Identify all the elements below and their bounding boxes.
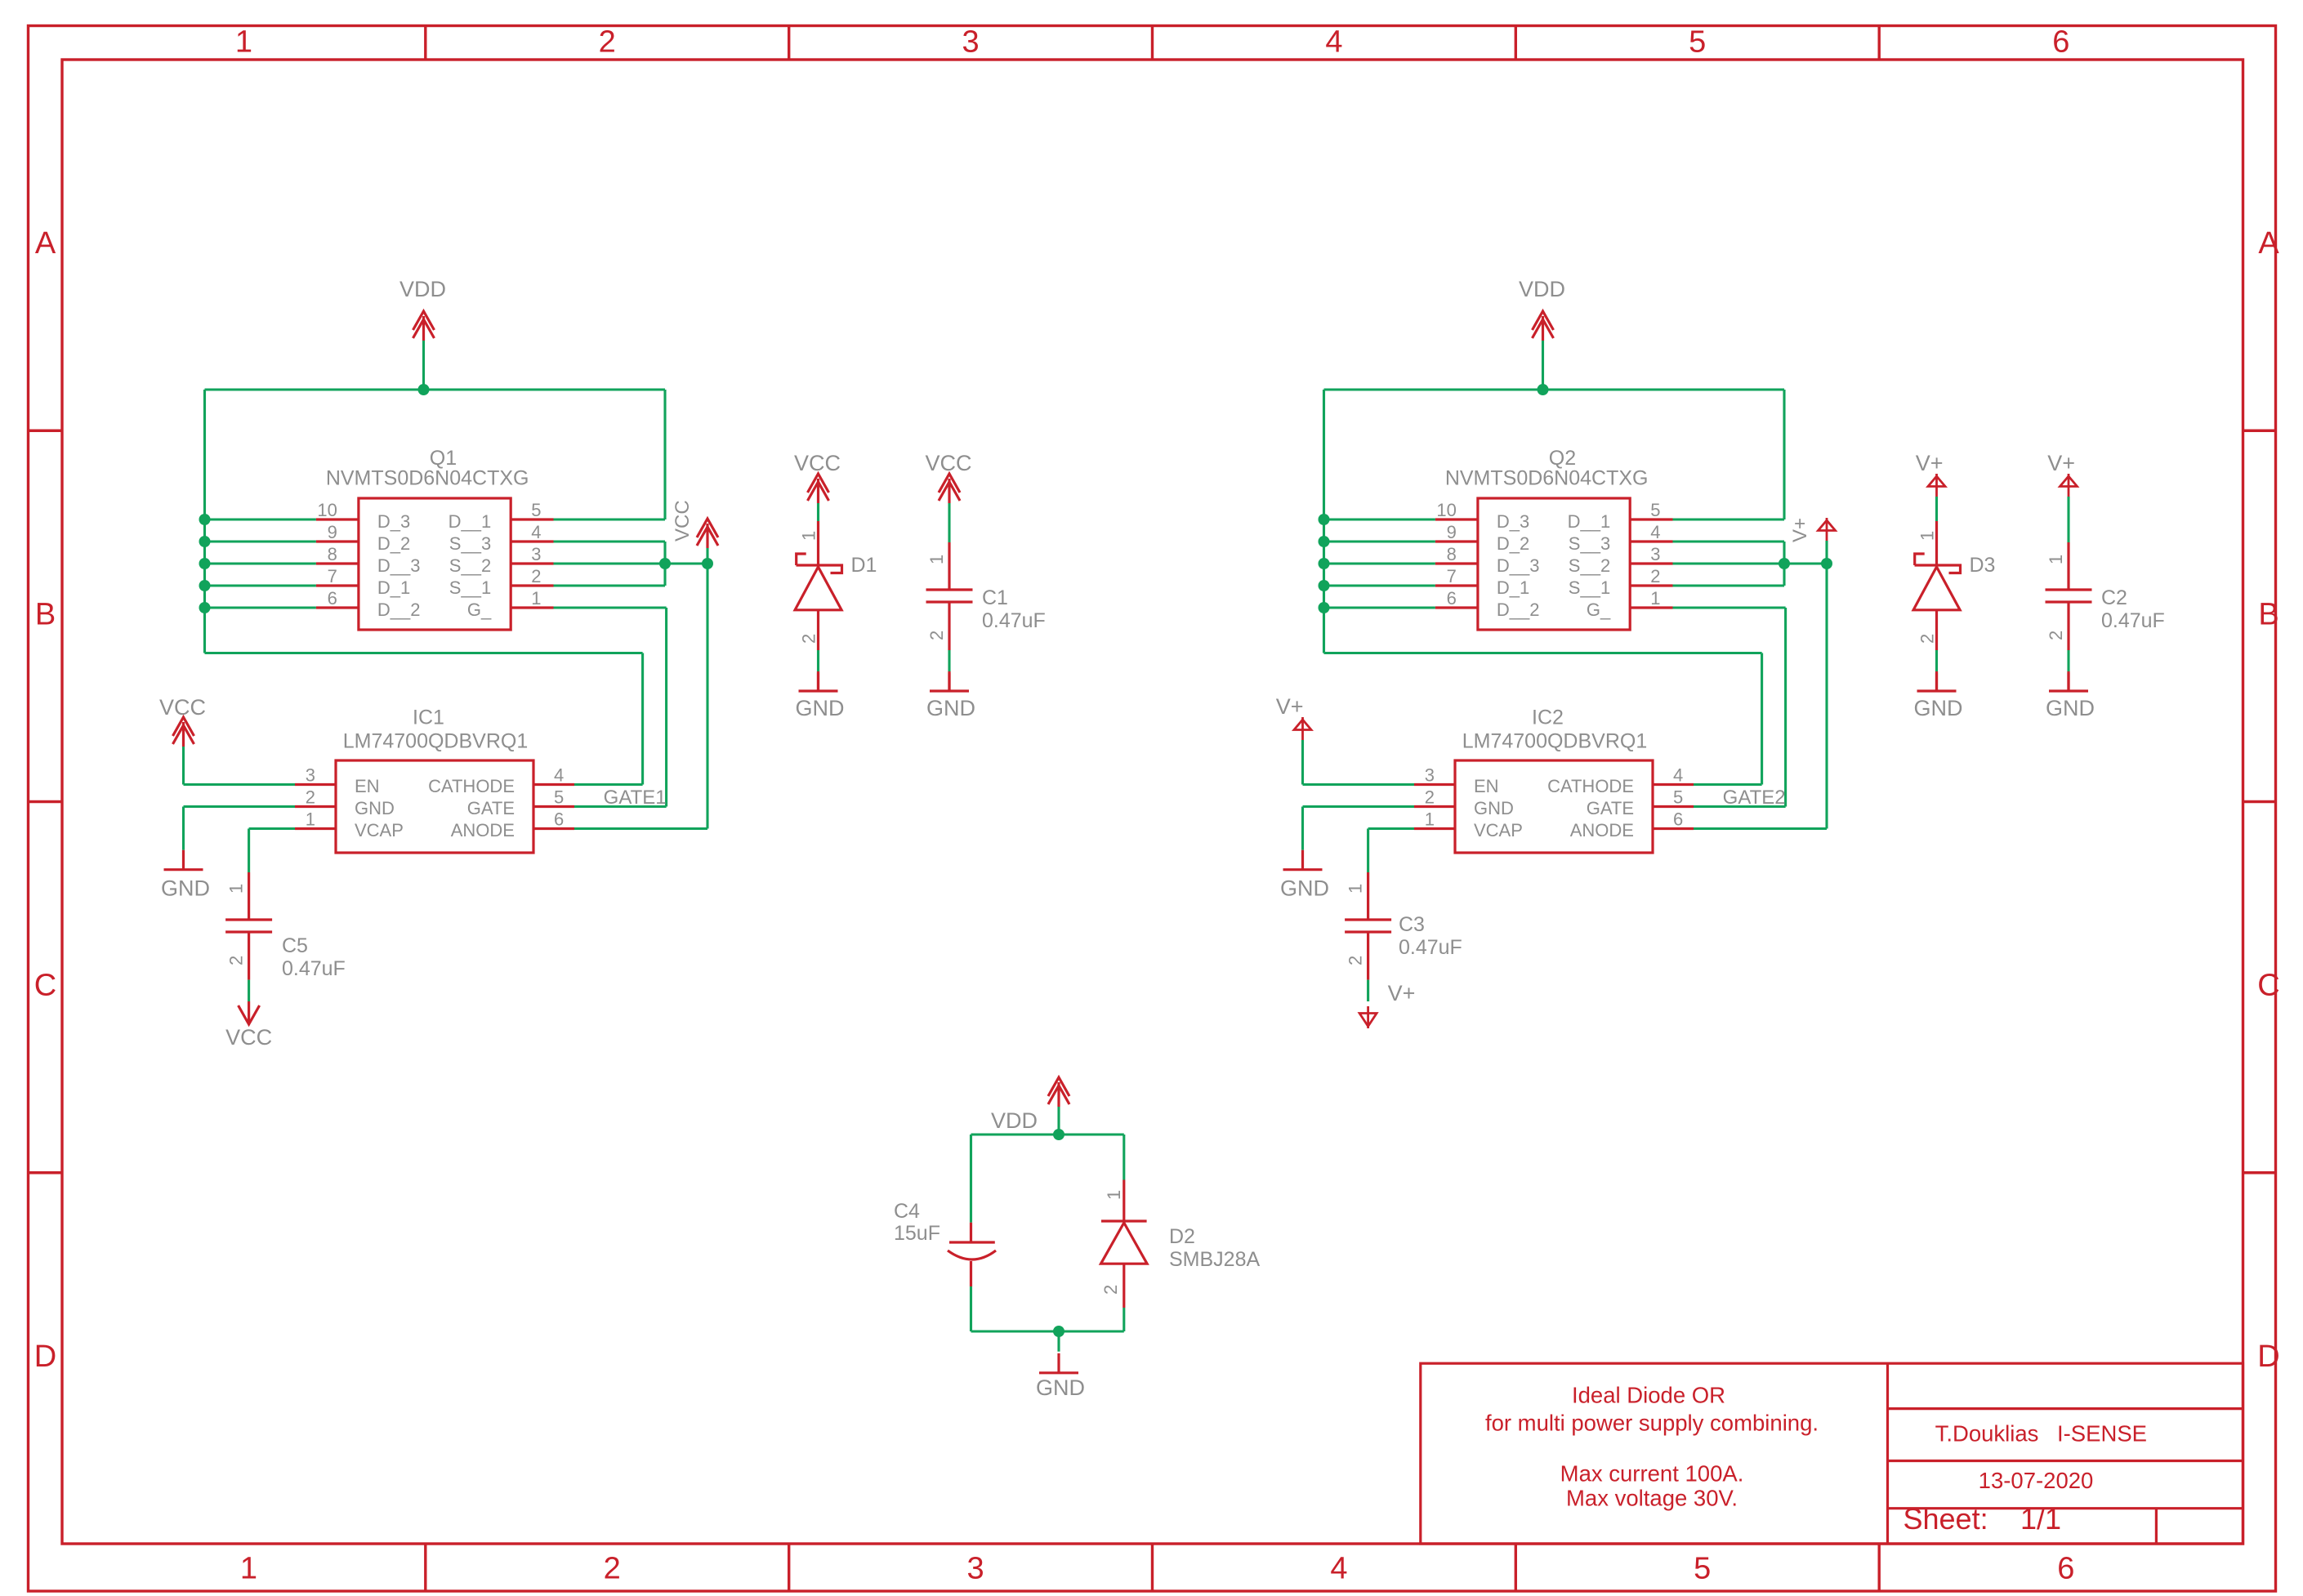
svg-text:D_1: D_1 xyxy=(377,577,410,598)
wire Q2 pin4 xyxy=(1673,540,1785,542)
svg-text:6: 6 xyxy=(1673,809,1683,830)
IC1 pin 2 stub xyxy=(295,805,336,808)
svg-text:1: 1 xyxy=(1104,1190,1124,1200)
wire source tie vertical xyxy=(663,542,666,586)
svg-text:0.47uF: 0.47uF xyxy=(282,957,346,980)
diode D2 pin 1 stub xyxy=(1122,1180,1125,1223)
wire C5 VCAP net xyxy=(249,827,295,830)
svg-text:D_2: D_2 xyxy=(377,533,410,554)
capacitor C2 plates xyxy=(2046,588,2092,591)
frame row ticks left xyxy=(29,430,63,432)
capacitor C1 pin 2 stub xyxy=(948,602,950,650)
IC1 pin 4 stub xyxy=(533,783,574,786)
svg-text:V+: V+ xyxy=(2047,451,2075,475)
op-amp IC1 body (ideal diode controller) xyxy=(336,760,533,853)
svg-text:4: 4 xyxy=(531,522,541,542)
title block divider row1 xyxy=(1888,1407,2243,1410)
diode D3 pin 2 stub xyxy=(1935,610,1938,650)
svg-text:3: 3 xyxy=(1425,765,1435,786)
Q1 pin 9 stub xyxy=(316,540,359,542)
wire Q2 pin3 xyxy=(1673,562,1785,564)
ground symbol below C1 xyxy=(948,671,950,691)
svg-text:4: 4 xyxy=(1330,1552,1347,1586)
svg-text:6: 6 xyxy=(328,588,337,609)
wire bus bottom to IC2 CATHODE xyxy=(1324,652,1762,654)
svg-text:D_1: D_1 xyxy=(1497,577,1529,598)
svg-text:D_3: D_3 xyxy=(1497,511,1529,532)
svg-text:D__1: D__1 xyxy=(1568,511,1611,532)
Q1 pin 7 stub xyxy=(316,584,359,586)
wire bus to Q2 pin 10 xyxy=(1324,518,1435,520)
ground symbol below C2 xyxy=(2067,671,2069,691)
Q2 pin 8 stub xyxy=(1435,562,1478,564)
svg-text:NVMTS0D6N04CTXG: NVMTS0D6N04CTXG xyxy=(1445,467,1649,490)
svg-text:5: 5 xyxy=(531,500,541,520)
ground symbol bottom centre xyxy=(1057,1353,1060,1373)
junction bus pin7 xyxy=(1319,580,1330,591)
diode D1 cathode bar (zener) xyxy=(797,554,842,573)
capacitor C4 pin 2 stub xyxy=(970,1261,972,1286)
diode D3 cathode bar (zener) xyxy=(1915,554,1961,573)
svg-text:1: 1 xyxy=(226,884,247,894)
svg-text:3: 3 xyxy=(306,765,315,786)
svg-text:3: 3 xyxy=(967,1552,984,1586)
svg-text:GND: GND xyxy=(1474,798,1514,818)
ground stub below C1 xyxy=(948,673,950,691)
IC1 pin 6 stub xyxy=(533,827,574,830)
svg-text:2: 2 xyxy=(1100,1285,1121,1295)
svg-text:1: 1 xyxy=(306,809,315,830)
capacitor C4 curved plate (polarized) xyxy=(948,1250,996,1259)
Q2 pin 6 stub xyxy=(1435,606,1478,609)
capacitor C5 pin 2 stub xyxy=(248,932,250,980)
svg-text:NVMTS0D6N04CTXG: NVMTS0D6N04CTXG xyxy=(326,467,529,490)
junction V+ tap xyxy=(1821,558,1832,569)
svg-text:3: 3 xyxy=(1650,544,1660,564)
power VDD arrow above Q1 xyxy=(413,311,435,330)
wire bottom rail C4-D2 xyxy=(971,1330,1124,1332)
svg-text:6: 6 xyxy=(554,809,564,830)
svg-text:5: 5 xyxy=(1673,787,1683,808)
svg-text:3: 3 xyxy=(531,544,541,564)
capacitor C4 pin 1 stub xyxy=(970,1223,972,1242)
wire source to VCC tap xyxy=(665,562,707,564)
svg-text:0.47uF: 0.47uF xyxy=(1399,936,1462,959)
svg-text:V+: V+ xyxy=(1388,981,1416,1005)
ground stub below D3 xyxy=(1935,673,1938,691)
Q1 pin 2 stub xyxy=(511,584,553,586)
wire Q1 pin3 xyxy=(554,562,666,564)
svg-text:D__3: D__3 xyxy=(1497,555,1540,576)
svg-text:S__1: S__1 xyxy=(1569,577,1610,598)
junction VCC tap xyxy=(702,558,713,569)
svg-text:GND: GND xyxy=(1036,1375,1085,1400)
svg-text:2: 2 xyxy=(226,956,247,965)
Q2 pin 7 stub xyxy=(1435,584,1478,586)
Q1 pin 4 stub xyxy=(511,540,553,542)
Q1 pin 5 stub xyxy=(511,518,553,520)
svg-text:S__3: S__3 xyxy=(1569,533,1610,554)
junction source tie xyxy=(1779,558,1790,569)
title block outline xyxy=(1421,1363,2243,1544)
wire VCC down to IC1 ANODE xyxy=(706,564,708,829)
svg-text:CATHODE: CATHODE xyxy=(1547,776,1634,796)
junction bus pin7 xyxy=(199,580,211,591)
svg-text:5: 5 xyxy=(554,787,564,808)
svg-text:A: A xyxy=(35,226,56,261)
svg-text:1: 1 xyxy=(235,25,252,60)
wire bus bottom to IC1 CATHODE xyxy=(205,652,643,654)
op-amp IC2 body (ideal diode controller) xyxy=(1455,760,1653,853)
svg-text:1: 1 xyxy=(1346,884,1366,894)
wire bus to Q1 pin 8 xyxy=(205,562,316,564)
ground symbol at IC2 xyxy=(1301,850,1304,870)
wire bus to Q1 pin 7 xyxy=(205,584,316,586)
title block divider row2 xyxy=(1888,1460,2243,1462)
svg-text:GATE: GATE xyxy=(1587,798,1634,818)
Q1 pin 3 stub xyxy=(511,562,553,564)
wire VCC to D1 xyxy=(817,503,819,521)
svg-text:10: 10 xyxy=(1436,500,1456,520)
transistor Q1 body xyxy=(359,498,511,630)
wire VDD rail xyxy=(205,388,666,390)
svg-text:D__2: D__2 xyxy=(377,600,421,620)
wire IC2 ANODE horizontal xyxy=(1694,827,1827,830)
svg-text:G_: G_ xyxy=(467,600,492,620)
wire Q1 pin5 to VDD rail xyxy=(554,518,666,520)
Q2 pin 10 stub xyxy=(1435,518,1478,520)
svg-text:5: 5 xyxy=(1689,25,1706,60)
wire source tie vertical xyxy=(1783,542,1785,586)
wire left bus vertical xyxy=(203,390,206,653)
capacitor C2 pin 2 stub xyxy=(2067,602,2069,650)
wire bus to Q1 pin 9 xyxy=(205,540,316,542)
ground symbol below D3 xyxy=(1935,671,1938,691)
svg-text:4: 4 xyxy=(554,765,564,786)
svg-text:VCAP: VCAP xyxy=(1474,820,1523,840)
capacitor C2 pin 1 stub xyxy=(2067,542,2069,590)
wire D3 to GND xyxy=(1935,650,1938,673)
svg-text:2: 2 xyxy=(604,1552,621,1586)
wire C2 to GND xyxy=(2067,650,2069,673)
svg-text:EN: EN xyxy=(1474,776,1499,796)
diode D2 cathode bar xyxy=(1101,1219,1147,1222)
power V+ symbol right of Q2 xyxy=(1826,518,1828,541)
power VDD arrow above Q2 xyxy=(1533,311,1554,330)
svg-text:VCC: VCC xyxy=(672,500,694,542)
svg-text:CATHODE: CATHODE xyxy=(428,776,515,796)
diode D2 anode triangle xyxy=(1101,1223,1148,1264)
svg-text:VCC: VCC xyxy=(225,1025,272,1050)
svg-text:C4: C4 xyxy=(894,1200,920,1223)
svg-text:9: 9 xyxy=(1447,522,1457,542)
svg-text:D2: D2 xyxy=(1169,1225,1195,1248)
svg-text:GND: GND xyxy=(926,696,975,720)
wire C1 to GND xyxy=(948,650,950,673)
wire C3 bottom xyxy=(1367,980,1369,1001)
title block small cell divider xyxy=(2155,1509,2158,1544)
svg-text:GND: GND xyxy=(1280,876,1329,901)
svg-text:VCC: VCC xyxy=(794,451,841,475)
wire VDD stem xyxy=(1542,341,1544,390)
svg-text:10: 10 xyxy=(317,500,337,520)
svg-text:1: 1 xyxy=(1917,531,1938,541)
wire Q2 pin2 xyxy=(1673,584,1785,586)
power VCC arrow left of IC1 xyxy=(173,717,194,736)
svg-text:2: 2 xyxy=(531,566,541,586)
diode D3 pin 1 stub xyxy=(1935,521,1938,564)
Q2 pin 4 stub xyxy=(1630,540,1672,542)
junction bus pin10 xyxy=(1319,514,1330,525)
power V+ symbol down below C3 xyxy=(1367,1006,1369,1028)
wire VCC to EN xyxy=(182,747,185,785)
svg-text:0.47uF: 0.47uF xyxy=(2101,609,2165,632)
svg-text:1: 1 xyxy=(799,531,819,541)
svg-text:GATE: GATE xyxy=(467,798,515,818)
capacitor C3 plates xyxy=(1345,918,1391,921)
svg-text:2: 2 xyxy=(1650,566,1660,586)
svg-text:V+: V+ xyxy=(1789,518,1811,542)
ground symbol at IC1 xyxy=(182,850,185,870)
wire left bus vertical xyxy=(1323,390,1325,653)
svg-text:D__3: D__3 xyxy=(377,555,421,576)
wire top rail C4-D2 xyxy=(971,1133,1124,1135)
power VCC arrow right of Q1 xyxy=(697,519,718,537)
svg-text:7: 7 xyxy=(328,566,337,586)
svg-text:GATE2: GATE2 xyxy=(1723,787,1786,809)
wire bus to Q2 pin 8 xyxy=(1324,562,1435,564)
svg-text:GATE1: GATE1 xyxy=(604,787,667,809)
svg-text:1: 1 xyxy=(531,588,541,609)
svg-text:VCAP: VCAP xyxy=(355,820,404,840)
wire V+ stem xyxy=(1825,541,1828,564)
title block divider row3 xyxy=(1888,1507,2243,1509)
capacitor C3 pin 2 stub xyxy=(1367,932,1369,980)
IC1 pin 3 stub xyxy=(295,783,336,786)
junction bus pin9 xyxy=(1319,536,1330,547)
svg-text:2: 2 xyxy=(2046,631,2066,640)
svg-text:Ideal Diode OR: Ideal Diode OR xyxy=(1572,1383,1725,1408)
junction bus pin10 xyxy=(199,514,211,525)
wire C3 VCAP net xyxy=(1368,827,1414,830)
wire C4 bottom xyxy=(970,1286,972,1331)
svg-text:IC1: IC1 xyxy=(413,706,444,729)
svg-text:6: 6 xyxy=(1447,588,1457,609)
frame row ticks right xyxy=(2243,430,2276,432)
svg-text:4: 4 xyxy=(1673,765,1683,786)
svg-text:D__2: D__2 xyxy=(1497,600,1540,620)
svg-text:4: 4 xyxy=(1650,522,1660,542)
svg-text:V+: V+ xyxy=(1276,694,1304,719)
svg-text:GND: GND xyxy=(355,798,395,818)
Q1 pin 10 stub xyxy=(316,518,359,520)
svg-text:C1: C1 xyxy=(982,586,1008,609)
svg-text:2: 2 xyxy=(1917,634,1938,644)
svg-text:VDD: VDD xyxy=(399,277,446,301)
capacitor C1 plates xyxy=(926,588,973,591)
svg-text:C5: C5 xyxy=(282,934,308,957)
svg-text:SMBJ28A: SMBJ28A xyxy=(1169,1248,1260,1271)
svg-text:GND: GND xyxy=(161,876,210,901)
svg-text:EN: EN xyxy=(355,776,380,796)
wire bus to Q1 pin 6 xyxy=(205,606,316,609)
svg-text:D: D xyxy=(2257,1340,2279,1374)
svg-text:I-SENSE: I-SENSE xyxy=(2057,1421,2147,1447)
Q1 pin 8 stub xyxy=(316,562,359,564)
wire IC1 ANODE horizontal xyxy=(574,827,707,830)
svg-text:for multi power supply combini: for multi power supply combining. xyxy=(1485,1411,1819,1436)
svg-text:S__1: S__1 xyxy=(449,577,491,598)
svg-text:1: 1 xyxy=(1650,588,1660,609)
svg-text:6: 6 xyxy=(2052,25,2069,60)
svg-text:6: 6 xyxy=(2057,1552,2074,1586)
diode D1 pin 1 stub xyxy=(817,521,819,564)
power VCC arrow above D1 xyxy=(808,474,829,493)
svg-text:VCC: VCC xyxy=(925,451,971,475)
svg-text:7: 7 xyxy=(1447,566,1457,586)
svg-text:9: 9 xyxy=(328,522,337,542)
IC2 pin 5 stub xyxy=(1653,805,1694,808)
wire Q1 pin2 xyxy=(554,584,666,586)
svg-text:IC2: IC2 xyxy=(1532,706,1564,729)
svg-text:D3: D3 xyxy=(1970,554,1996,577)
wire D1 to GND xyxy=(817,650,819,673)
wire to D2 xyxy=(1122,1135,1125,1180)
svg-text:D_3: D_3 xyxy=(377,511,410,532)
power VDD arrow bottom centre xyxy=(1048,1077,1069,1096)
Q2 pin 9 stub xyxy=(1435,540,1478,542)
svg-text:D_2: D_2 xyxy=(1497,533,1529,554)
svg-text:LM74700QDBVRQ1: LM74700QDBVRQ1 xyxy=(343,730,529,753)
diode D3 anode triangle xyxy=(1913,567,1960,610)
svg-text:1: 1 xyxy=(240,1552,257,1586)
svg-text:8: 8 xyxy=(328,544,337,564)
IC2 pin 1 stub xyxy=(1414,827,1455,830)
wire C5 bottom xyxy=(248,980,250,1001)
svg-text:0.47uF: 0.47uF xyxy=(982,609,1046,632)
ground symbol below D1 xyxy=(817,671,819,691)
junction bus pin6 xyxy=(1319,602,1330,613)
power V+ symbol left of IC2 xyxy=(1301,717,1304,740)
svg-text:GND: GND xyxy=(1914,696,1963,720)
IC2 pin 4 stub xyxy=(1653,783,1694,786)
svg-text:S__2: S__2 xyxy=(1569,555,1610,576)
svg-text:2: 2 xyxy=(799,634,819,644)
svg-text:C: C xyxy=(2257,969,2279,1003)
svg-text:S__3: S__3 xyxy=(449,533,491,554)
Q1 pin 6 stub xyxy=(316,606,359,609)
junction GND bottom rail xyxy=(1053,1326,1064,1337)
svg-text:VDD: VDD xyxy=(991,1108,1038,1133)
wire bus to Q2 pin 9 xyxy=(1324,540,1435,542)
wire VCC arrow stem xyxy=(706,548,708,564)
wire bus to Q2 pin 6 xyxy=(1324,606,1435,609)
capacitor C1 pin 1 stub xyxy=(948,542,950,590)
svg-text:C3: C3 xyxy=(1399,913,1425,936)
svg-text:D__1: D__1 xyxy=(449,511,492,532)
svg-text:B: B xyxy=(35,597,56,631)
junction VDD bottom rail xyxy=(1053,1129,1064,1140)
wire V+ down to IC2 ANODE xyxy=(1825,564,1828,829)
ground stub below D1 xyxy=(817,673,819,691)
svg-text:1: 1 xyxy=(926,555,947,564)
capacitor C5 pin 1 stub xyxy=(248,872,250,920)
wire VDD rail xyxy=(1324,388,1785,390)
svg-text:S__2: S__2 xyxy=(449,555,491,576)
IC2 pin 6 stub xyxy=(1653,827,1694,830)
svg-text:1: 1 xyxy=(1425,809,1435,830)
Q2 pin 3 stub xyxy=(1630,562,1672,564)
wire Q1 pin4 xyxy=(554,540,666,542)
wire GND stem bottom xyxy=(1057,1331,1060,1352)
svg-text:A: A xyxy=(2258,226,2279,261)
wire V+ to EN xyxy=(1301,740,1304,785)
title block divider vertical xyxy=(1886,1363,1889,1544)
transistor Q2 body xyxy=(1478,498,1630,630)
svg-text:Max voltage 30V.: Max voltage 30V. xyxy=(1566,1486,1738,1511)
diode D1 pin 2 stub xyxy=(817,610,819,650)
junction VDD rail xyxy=(418,384,430,395)
svg-text:Max current 100A.: Max current 100A. xyxy=(1560,1461,1744,1487)
wire Q2 gate to IC2 GATE xyxy=(1673,606,1786,609)
wire VCC to C1 xyxy=(948,503,950,542)
IC1 pin 5 stub xyxy=(533,805,574,808)
junction VDD rail xyxy=(1538,384,1549,395)
svg-text:2: 2 xyxy=(1346,956,1366,965)
power V+ symbol above C2 xyxy=(2068,474,2070,497)
frame column ticks top xyxy=(424,26,426,60)
wire VDD stem bottom xyxy=(1057,1107,1060,1135)
junction source tie xyxy=(659,558,671,569)
ground stub below C2 xyxy=(2067,673,2069,691)
wire VDD stem xyxy=(422,341,425,390)
wire V+ to D3 xyxy=(1935,497,1938,521)
wire D2 bottom xyxy=(1122,1308,1125,1331)
wire to C4 xyxy=(970,1135,972,1223)
svg-text:13-07-2020: 13-07-2020 xyxy=(1979,1468,2094,1493)
svg-text:V+: V+ xyxy=(1916,451,1944,475)
svg-text:5: 5 xyxy=(1650,500,1660,520)
Q2 pin 5 stub xyxy=(1630,518,1672,520)
svg-text:VCC: VCC xyxy=(159,695,206,720)
frame column ticks bottom xyxy=(424,1544,426,1591)
svg-text:GND: GND xyxy=(2046,696,2095,720)
svg-text:VDD: VDD xyxy=(1519,277,1565,301)
svg-text:LM74700QDBVRQ1: LM74700QDBVRQ1 xyxy=(1462,730,1648,753)
capacitor C5 plates xyxy=(225,918,272,921)
power VCC arrow down below C5 xyxy=(248,1001,250,1023)
wire V+ to C2 xyxy=(2067,497,2069,542)
svg-text:T.Douklias: T.Douklias xyxy=(1935,1421,2039,1447)
svg-text:D: D xyxy=(34,1340,56,1374)
svg-text:2: 2 xyxy=(599,25,616,60)
power V+ symbol above D3 xyxy=(1935,474,1938,497)
svg-text:2: 2 xyxy=(1425,787,1435,808)
wire IC1 GND pin xyxy=(184,805,296,808)
svg-text:Sheet:: Sheet: xyxy=(1904,1502,1988,1536)
svg-text:2: 2 xyxy=(306,787,315,808)
wire IC2 GND pin xyxy=(1303,805,1415,808)
wire Q1 gate to IC1 GATE xyxy=(554,606,667,609)
IC1 pin 1 stub xyxy=(295,827,336,830)
svg-text:GND: GND xyxy=(796,696,845,720)
wire source to V+ tap xyxy=(1784,562,1827,564)
wire bus to Q1 pin 10 xyxy=(205,518,316,520)
svg-text:5: 5 xyxy=(1694,1552,1711,1586)
svg-text:D1: D1 xyxy=(851,554,877,577)
svg-text:1: 1 xyxy=(2046,555,2066,564)
Q2 pin 1 stub xyxy=(1630,606,1672,609)
